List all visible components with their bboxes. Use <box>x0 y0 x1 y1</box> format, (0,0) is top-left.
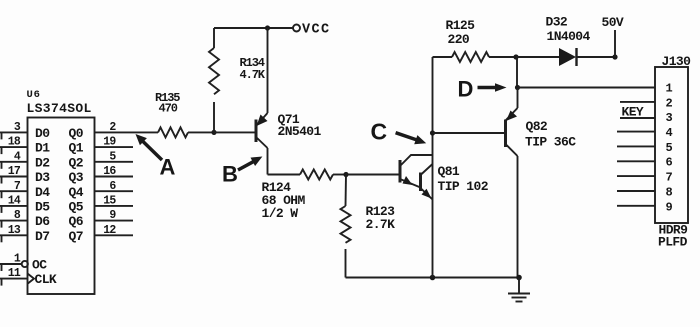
svg-text:15: 15 <box>103 195 116 208</box>
resistor R123 <box>341 175 351 278</box>
svg-text:C: C <box>371 119 388 145</box>
ground <box>508 278 530 302</box>
wire D3 pin 17 <box>0 176 28 184</box>
node C arrow and label <box>371 119 427 145</box>
wire D4 pin 7 <box>0 191 28 199</box>
label KEY and pin 3 wire <box>620 105 655 120</box>
svg-text:PLFD: PLFD <box>658 235 688 250</box>
wire bottom rail <box>346 277 520 279</box>
resistor R135 <box>158 127 188 137</box>
transistor Q71 PNP 2N5401 <box>256 28 268 175</box>
wire J130 pin 2 stub <box>620 101 655 103</box>
svg-text:2N5401: 2N5401 <box>278 124 322 139</box>
wire R124 to node <box>333 174 346 176</box>
svg-text:220: 220 <box>448 32 470 47</box>
svg-text:1N4004: 1N4004 <box>547 29 591 44</box>
svg-text:Q0: Q0 <box>69 126 84 141</box>
svg-text:D2: D2 <box>35 155 50 170</box>
svg-text:Q2: Q2 <box>69 155 84 170</box>
svg-text:9: 9 <box>666 200 673 214</box>
wire VCC rail <box>214 27 293 29</box>
wire node C rail vertical <box>432 57 434 278</box>
svg-text:4: 4 <box>666 126 673 140</box>
wire CLK pin 11 <box>0 278 28 286</box>
node A arrow and label <box>136 134 176 180</box>
svg-text:14: 14 <box>8 195 21 208</box>
svg-text:D4: D4 <box>35 185 50 200</box>
wire Q1 pin 19 <box>95 146 134 148</box>
wire D1 pin 18 <box>0 147 28 155</box>
svg-text:50V: 50V <box>602 15 624 30</box>
wire D0 pin 3 <box>0 132 28 140</box>
transistor Q82 PNP TIP 36C <box>506 88 518 278</box>
svg-text:Q7: Q7 <box>69 229 83 244</box>
resistor R125 <box>433 52 517 62</box>
IC U6 octal latch LS374SOL <box>27 89 95 294</box>
power terminal VCC <box>293 25 300 32</box>
svg-text:6: 6 <box>109 180 116 193</box>
svg-text:1/2 W: 1/2 W <box>262 206 299 221</box>
svg-text:12: 12 <box>103 224 116 237</box>
svg-text:8: 8 <box>666 185 673 199</box>
wire Q3 pin 16 <box>95 176 134 178</box>
svg-text:7: 7 <box>666 171 673 185</box>
svg-text:17: 17 <box>8 165 21 178</box>
wire node to Q71 base <box>214 131 256 133</box>
wire D5 pin 14 <box>0 205 28 213</box>
wire J130 pin 8 stub <box>617 190 655 192</box>
svg-text:18: 18 <box>8 136 21 149</box>
wire Q0 pin 2 to R135 <box>95 131 159 133</box>
pin bubble OC <box>22 261 28 267</box>
transistor Q81 NPN darlington TIP 102 <box>400 155 433 200</box>
svg-text:TIP 36C: TIP 36C <box>525 135 576 150</box>
node B arrow and label <box>222 157 262 187</box>
wire J130 pin 6 stub <box>617 160 655 162</box>
svg-text:CLK: CLK <box>35 272 57 287</box>
svg-text:16: 16 <box>103 165 116 178</box>
connector J130 HDR9 <box>655 54 691 250</box>
wire D7 pin 13 <box>0 235 28 243</box>
svg-text:OC: OC <box>32 258 47 273</box>
wire Q2 pin 5 <box>95 161 134 163</box>
svg-text:Q81: Q81 <box>438 164 460 179</box>
junction node C / Q82 base <box>430 130 435 135</box>
svg-text:D3: D3 <box>35 170 50 185</box>
junction Q81 emitter / rail <box>430 275 436 281</box>
resistor R124 <box>300 170 333 180</box>
svg-text:Q6: Q6 <box>69 214 84 229</box>
svg-text:4.7K: 4.7K <box>240 68 266 82</box>
svg-text:D: D <box>458 77 474 102</box>
junction 50V tap <box>612 54 617 59</box>
svg-text:3: 3 <box>666 111 673 125</box>
svg-text:470: 470 <box>159 102 178 116</box>
svg-text:D5: D5 <box>35 200 50 215</box>
wire node to Q81 base <box>346 174 400 176</box>
wire J130 pin 9 stub <box>617 205 655 207</box>
svg-text:Q5: Q5 <box>69 200 84 215</box>
svg-text:7: 7 <box>14 180 21 193</box>
svg-text:1: 1 <box>666 82 673 96</box>
svg-text:D6: D6 <box>35 214 50 229</box>
svg-text:Q82: Q82 <box>526 119 548 134</box>
wire Q5 pin 15 <box>95 205 134 207</box>
wire D2 pin 4 <box>0 161 28 169</box>
wire node D to J130 pin 1 <box>518 87 656 89</box>
svg-text:5: 5 <box>666 141 673 155</box>
diode D32 1N4004 <box>516 48 615 66</box>
svg-text:A: A <box>160 155 176 180</box>
wire J130 pin 5 stub <box>617 145 655 147</box>
svg-text:D32: D32 <box>546 15 568 30</box>
svg-text:8: 8 <box>14 209 21 222</box>
wire R135 to node <box>188 131 214 133</box>
svg-text:11: 11 <box>8 267 21 280</box>
svg-text:Q1: Q1 <box>69 141 84 156</box>
svg-text:D1: D1 <box>35 141 50 156</box>
svg-text:19: 19 <box>103 136 116 149</box>
wire Q7 pin 12 <box>95 234 134 236</box>
wire D6 pin 8 <box>0 220 28 228</box>
junction node D <box>515 85 520 90</box>
power 50V <box>602 15 624 57</box>
wire J130 pin 4 stub <box>617 131 655 133</box>
junction node R134/R135 <box>211 130 216 135</box>
wire Q4 pin 6 <box>95 190 134 192</box>
svg-text:4: 4 <box>14 150 21 163</box>
svg-text:LS374SOL: LS374SOL <box>27 101 92 116</box>
wire OC pin 1 <box>0 264 22 272</box>
svg-text:D0: D0 <box>35 126 50 141</box>
svg-text:Q3: Q3 <box>69 170 84 185</box>
junction R124/R123/Q81 base <box>343 172 348 177</box>
svg-text:U6: U6 <box>27 89 41 101</box>
svg-text:6: 6 <box>666 156 673 170</box>
svg-text:1: 1 <box>14 253 21 266</box>
wire J130 pin 7 stub <box>617 175 655 177</box>
junction ground / rail <box>516 275 522 281</box>
svg-text:D7: D7 <box>35 229 49 244</box>
svg-text:R125: R125 <box>446 18 476 33</box>
svg-text:5: 5 <box>109 150 116 163</box>
svg-text:B: B <box>222 162 238 187</box>
svg-text:13: 13 <box>8 224 21 237</box>
svg-text:3: 3 <box>14 121 21 134</box>
svg-text:VCC: VCC <box>302 23 331 38</box>
svg-text:Q4: Q4 <box>69 185 84 200</box>
wire Q6 pin 9 <box>95 220 134 222</box>
node D arrow and label <box>458 77 507 102</box>
svg-text:2.7K: 2.7K <box>366 217 396 232</box>
junction R125/D32/node D <box>513 54 518 59</box>
svg-text:TIP 102: TIP 102 <box>438 179 489 194</box>
wire node down to D junction <box>516 57 518 88</box>
wire node C to Q82 base <box>433 132 506 134</box>
svg-text:2: 2 <box>666 96 673 110</box>
resistor R134 <box>209 28 219 132</box>
svg-text:2: 2 <box>109 121 116 134</box>
svg-text:9: 9 <box>109 209 116 222</box>
svg-text:J130: J130 <box>662 54 692 69</box>
junction VCC / Q71 emitter <box>265 25 270 30</box>
wire Q71 collector to R124 <box>268 174 301 176</box>
clock triangle CLK <box>28 274 35 284</box>
